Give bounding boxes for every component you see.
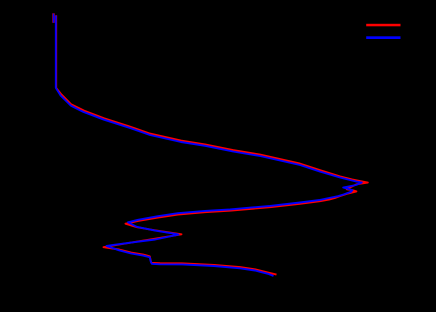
legend blue line — [366, 36, 400, 39]
blue curve — [54, 14, 362, 276]
legend red line — [366, 24, 400, 27]
red curve — [54, 13, 368, 274]
